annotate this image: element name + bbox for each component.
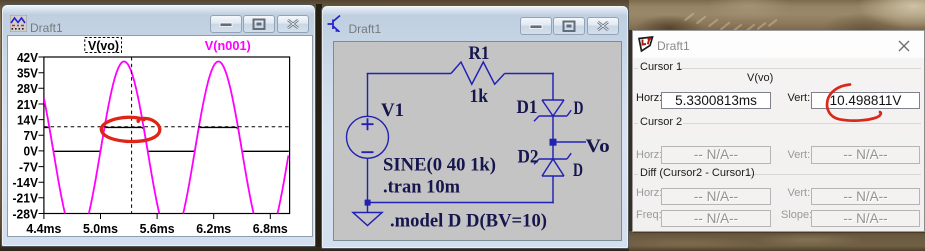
wire top rail left segment <box>367 73 451 75</box>
label D2 <box>518 147 539 168</box>
wire node down to D2 <box>552 145 554 159</box>
label R1 <box>469 43 490 64</box>
svg-text:SINE(0 40 1k): SINE(0 40 1k) <box>383 155 496 176</box>
diode D1 (zener) symbol <box>534 100 571 121</box>
svg-text:D: D <box>574 98 584 119</box>
wire D1 cathode to node Vo junction <box>552 116 554 139</box>
wire ground stub <box>367 203 369 213</box>
svg-text:D2: D2 <box>518 147 539 168</box>
wire bottom rail <box>368 202 554 204</box>
SINE source spec text <box>383 155 496 176</box>
wire node to Vo label <box>553 141 586 143</box>
diode D2 (zener) symbol <box>534 153 571 176</box>
svg-text:Vo: Vo <box>586 136 610 157</box>
svg-text:V1: V1 <box>381 100 404 121</box>
middle schematic window <box>321 5 629 249</box>
left waveform window <box>1 4 316 247</box>
value 1k <box>470 86 489 107</box>
wire right rail down to D1 <box>552 73 554 100</box>
right cursor panel <box>632 30 925 232</box>
wire D2 anode down to bottom rail <box>552 176 554 203</box>
voltage source V1 symbol <box>347 116 389 158</box>
value D of D1 <box>574 98 584 119</box>
value D of D2 <box>573 160 583 181</box>
.tran directive <box>383 177 460 198</box>
svg-text:D1: D1 <box>517 97 538 118</box>
svg-text:D: D <box>573 160 583 181</box>
svg-text:.model D D(BV=10): .model D D(BV=10) <box>390 211 547 232</box>
wire top-left vertical from V1 to top rail <box>367 74 369 117</box>
resistor R1 body <box>451 62 505 84</box>
label V1 <box>381 100 404 121</box>
ground symbol <box>353 213 382 226</box>
svg-text:R1: R1 <box>469 43 490 64</box>
wire top rail right segment <box>505 73 554 75</box>
svg-text:1k: 1k <box>470 86 489 107</box>
net label Vo <box>586 136 610 157</box>
svg-text:.tran 10m: .tran 10m <box>383 177 460 198</box>
node junction at V1 bottom <box>365 200 371 206</box>
node junction at Vo <box>550 139 557 146</box>
.model directive <box>390 211 547 232</box>
label D1 <box>517 97 538 118</box>
wire V1 minus to bottom rail <box>367 158 369 203</box>
